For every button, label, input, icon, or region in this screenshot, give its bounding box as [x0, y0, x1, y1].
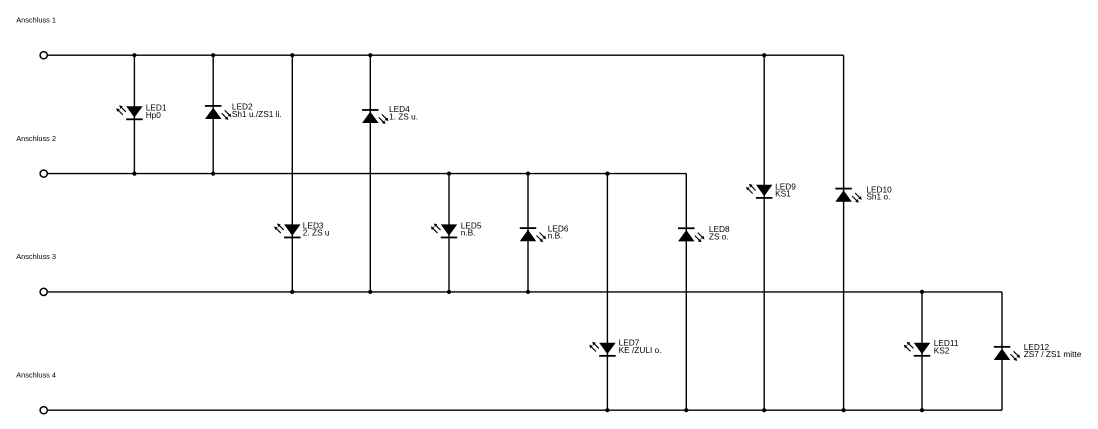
svg-text:KS1: KS1: [775, 189, 791, 199]
svg-text:KS2: KS2: [934, 345, 950, 355]
junction on Anschluss 2 at x=449.0: [447, 172, 451, 176]
junction on Anschluss 1 at x=134.4: [132, 53, 136, 57]
LED LED11 symbol: [904, 342, 930, 357]
junction on Anschluss 4 at x=922.0: [920, 408, 924, 412]
junction on Anschluss 1 at x=292.3: [290, 53, 294, 57]
node Anschluss 3 terminal: [40, 288, 47, 295]
wire LED10 branch: [843, 55, 845, 410]
svg-text:1. ZS u.: 1. ZS u.: [389, 112, 418, 122]
wire LED9 branch: [763, 55, 765, 410]
wire Anschluss 3 bus: [48, 291, 1002, 293]
svg-text:KE /ZULI o.: KE /ZULI o.: [619, 345, 662, 355]
svg-text:n.B.: n.B.: [461, 228, 476, 238]
svg-text:n.B.: n.B.: [548, 231, 563, 241]
wire Anschluss 1 bus: [48, 54, 844, 56]
node Anschluss 4 terminal: [40, 407, 47, 414]
node Anschluss 2 terminal: [40, 170, 47, 177]
svg-text:Anschluss 1: Anschluss 1: [16, 15, 56, 24]
junction on Anschluss 1 at x=370.3: [368, 53, 372, 57]
junction on Anschluss 4 at x=607.4: [605, 408, 609, 412]
svg-text:Hp0: Hp0: [146, 110, 162, 120]
wire LED6 branch: [527, 174, 529, 292]
junction on Anschluss 3 at x=528.0: [526, 290, 530, 294]
junction on Anschluss 2 at x=607.4: [605, 172, 609, 176]
LED LED8 symbol: [678, 227, 704, 242]
junction on Anschluss 4 at x=686.3: [684, 408, 688, 412]
LED LED7 symbol: [589, 342, 615, 357]
svg-text:ZS o.: ZS o.: [709, 232, 729, 242]
LED LED2 symbol: [205, 105, 231, 120]
LED LED4 symbol: [362, 109, 388, 124]
wire Anschluss 2 bus: [48, 173, 686, 175]
wire LED3 branch: [291, 55, 293, 292]
wire LED7 branch: [606, 174, 608, 411]
svg-text:Anschluss 3: Anschluss 3: [16, 252, 56, 261]
svg-text:ZS7 / ZS1 mitte: ZS7 / ZS1 mitte: [1024, 349, 1082, 359]
junction on Anschluss 3 at x=922.0: [920, 290, 924, 294]
LED LED12 symbol: [994, 346, 1020, 361]
svg-text:2. ZS u: 2. ZS u: [303, 228, 330, 238]
LED LED9 symbol: [746, 184, 772, 199]
LED LED1 symbol: [116, 105, 142, 120]
junction on Anschluss 4 at x=843.6: [842, 408, 846, 412]
LED LED6 symbol: [520, 227, 546, 242]
junction on Anschluss 3 at x=370.3: [368, 290, 372, 294]
junction on Anschluss 2 at x=213.2: [211, 172, 215, 176]
wire LED8 branch: [685, 174, 687, 411]
LED LED3 symbol: [274, 223, 300, 238]
junction on Anschluss 3 at x=449.0: [447, 290, 451, 294]
LED LED5 symbol: [431, 223, 457, 238]
wire LED1 branch: [133, 55, 135, 173]
wire LED5 branch: [448, 174, 450, 292]
svg-text:Anschluss 2: Anschluss 2: [16, 134, 56, 143]
node Anschluss 1 terminal: [40, 52, 47, 59]
junction on Anschluss 2 at x=528.0: [526, 172, 530, 176]
wire LED4 branch: [369, 55, 371, 292]
wire LED2 branch: [212, 55, 214, 173]
junction on Anschluss 1 at x=764.2: [762, 53, 766, 57]
wire Anschluss 4 bus: [48, 409, 1002, 411]
junction on Anschluss 4 at x=764.2: [762, 408, 766, 412]
junction on Anschluss 2 at x=134.4: [132, 172, 136, 176]
wire LED12 branch: [1001, 292, 1003, 410]
svg-text:Sh1 u./ZS1 li.: Sh1 u./ZS1 li.: [232, 109, 282, 119]
svg-text:Sh1 o.: Sh1 o.: [866, 192, 890, 202]
junction on Anschluss 1 at x=213.2: [211, 53, 215, 57]
svg-text:Anschluss 4: Anschluss 4: [16, 371, 56, 380]
junction on Anschluss 3 at x=292.3: [290, 290, 294, 294]
wire LED11 branch: [921, 292, 923, 410]
LED LED10 symbol: [835, 188, 861, 203]
